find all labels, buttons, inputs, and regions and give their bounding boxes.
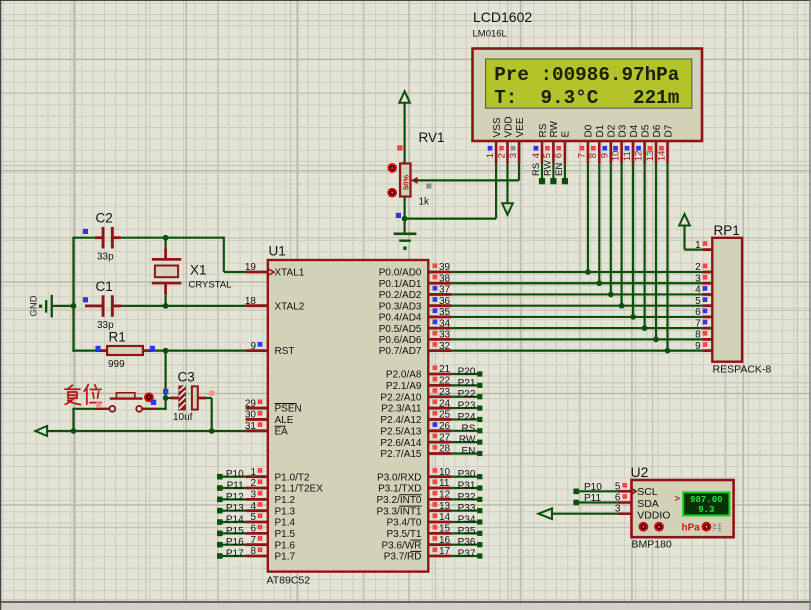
U1 pin 15 P3.5/T1: [386, 524, 451, 540]
wire C3 right lead to vertical: [205, 397, 212, 399]
svg-text:10: 10: [439, 467, 451, 478]
svg-text:P11: P11: [584, 493, 601, 504]
svg-text:13: 13: [439, 501, 451, 512]
node P11 at U2: [573, 493, 618, 505]
junction rail bottom left: [71, 428, 77, 434]
svg-text:P31: P31: [458, 481, 476, 492]
wire RV1 top from power arrow: [404, 103, 406, 164]
svg-text:VDDIO: VDDIO: [637, 510, 670, 522]
U1 pin 27 P2.6/A14: [380, 432, 451, 448]
junction D3/AD3: [619, 303, 625, 309]
power terminal arrow left at EA rail: [35, 426, 47, 436]
U1 pin 26 P2.5/A13: [380, 421, 451, 437]
svg-text:50%: 50%: [401, 175, 410, 190]
svg-text:14: 14: [439, 512, 451, 523]
svg-text:3: 3: [250, 490, 256, 501]
wire button corner down to rail: [72, 408, 74, 432]
node P11: [217, 481, 246, 492]
marker square C3 right: [209, 390, 214, 395]
U1 pin 7 P1.6: [246, 535, 296, 551]
svg-text:33: 33: [439, 330, 451, 341]
svg-text:D1: D1: [595, 124, 606, 137]
svg-text:8: 8: [588, 153, 599, 158]
svg-text:P0.2/AD2: P0.2/AD2: [379, 290, 422, 301]
svg-text:29: 29: [245, 398, 257, 409]
svg-text:ALE: ALE: [275, 415, 294, 426]
junction GND/C1 rail: [71, 303, 77, 309]
svg-text:12: 12: [439, 490, 451, 501]
junction D4/AD4: [630, 314, 636, 320]
U1 pin 38 P0.1/AD1: [379, 273, 452, 289]
marker square button right: [151, 400, 156, 405]
svg-text:P11: P11: [227, 481, 244, 492]
lcd display LCD1602 LM016L: [473, 49, 703, 142]
svg-text:P2.7/A15: P2.7/A15: [380, 449, 422, 460]
node RW: [451, 435, 482, 446]
svg-text:2: 2: [496, 153, 507, 158]
svg-text:8: 8: [250, 546, 256, 557]
wire P0.4/AD4 bus row to RP1 pin 6: [451, 316, 702, 318]
svg-text:13: 13: [645, 151, 656, 162]
U1 pin 3 P1.2: [246, 490, 296, 506]
svg-text:P1.2: P1.2: [275, 495, 296, 506]
U1 pin 30 ALE: [245, 410, 294, 426]
svg-text:P14: P14: [226, 515, 244, 526]
svg-text:6: 6: [554, 153, 565, 158]
svg-text:11: 11: [622, 151, 633, 161]
U2 display window: [683, 492, 729, 515]
marker square R1 right: [150, 346, 155, 351]
svg-text:C1: C1: [96, 279, 113, 294]
power terminal arrow left at U2 VDDIO: [539, 508, 553, 519]
svg-text:P21: P21: [458, 378, 476, 389]
node EN: [451, 446, 482, 457]
svg-text:27: 27: [439, 432, 451, 443]
node P10: [217, 469, 246, 480]
svg-text:VSS: VSS: [492, 117, 503, 137]
svg-text:987.00: 987.00: [690, 495, 722, 505]
svg-text:P2.4/A12: P2.4/A12: [380, 415, 422, 426]
U1 pin 36 P0.3/AD3: [379, 296, 452, 312]
node P10 at U2: [573, 482, 618, 494]
svg-text:X1: X1: [190, 263, 207, 278]
svg-text:4: 4: [531, 153, 542, 158]
LCD pin 5 RW: [542, 120, 560, 163]
svg-text:12: 12: [633, 151, 644, 162]
U1 XTAL1 clock mark: [269, 269, 274, 275]
svg-text:34: 34: [439, 318, 451, 329]
svg-text:35: 35: [439, 307, 451, 318]
svg-text:P13: P13: [226, 503, 244, 514]
RP1 pin 8: [695, 330, 712, 341]
wire LCD D0 down to AD0 bus: [587, 163, 589, 272]
svg-text:5: 5: [542, 153, 553, 158]
U1 pin 22 P2.1/A9: [386, 376, 451, 392]
LCD pin 10 D3: [610, 124, 628, 163]
node P24: [451, 412, 482, 423]
marker square button left: [96, 402, 101, 407]
svg-text:3: 3: [508, 153, 519, 158]
svg-text:P2.3/A11: P2.3/A11: [381, 404, 422, 415]
svg-text:SCL: SCL: [637, 486, 658, 498]
junction D5/AD5: [642, 325, 648, 331]
svg-text:C3: C3: [178, 370, 195, 385]
wire P0.0/AD0 bus row to RP1 pin 2: [451, 271, 702, 273]
svg-text:9: 9: [600, 153, 611, 158]
svg-text:9.3: 9.3: [698, 505, 714, 515]
ground symbol below RV1: [394, 233, 417, 250]
svg-text:P1.6: P1.6: [275, 540, 296, 551]
node P15: [217, 526, 246, 537]
button actuator red knob: [144, 392, 154, 402]
svg-text:23: 23: [439, 387, 451, 398]
svg-text:E: E: [561, 131, 572, 138]
wire P0.2/AD2 bus row to RP1 pin 4: [451, 293, 702, 295]
RP1 pin 5: [695, 296, 712, 307]
wire P0.7/AD7 bus row to RP1 pin 9: [451, 350, 702, 352]
svg-text:31: 31: [245, 421, 257, 432]
svg-text:5: 5: [250, 512, 256, 523]
pushbutton reset: [96, 393, 156, 412]
svg-text:C2: C2: [96, 211, 113, 226]
svg-text:P2.5/A13: P2.5/A13: [380, 426, 422, 437]
U1 pin 12 P3.2/INT0: [376, 490, 451, 506]
RP1 pin 4: [695, 285, 712, 296]
svg-text:GND: GND: [29, 295, 40, 316]
svg-text:P0.0/AD0: P0.0/AD0: [379, 268, 422, 279]
wire LCD D4 down to AD4 bus: [632, 163, 634, 317]
wire LCD D5 down to AD5 bus: [643, 163, 645, 328]
svg-text:P3.2/INT0: P3.2/INT0: [376, 495, 421, 506]
svg-text:D5: D5: [640, 124, 651, 137]
svg-text:P1.0/T2: P1.0/T2: [275, 472, 310, 483]
U1 pin 13 P3.3/INT1: [376, 501, 451, 517]
node P34: [451, 515, 482, 526]
svg-text:RS: RS: [531, 163, 542, 176]
svg-text:1: 1: [695, 240, 701, 251]
svg-text:32: 32: [439, 341, 451, 352]
svg-text:9: 9: [695, 341, 701, 352]
RP1 pin 2: [695, 262, 712, 273]
wire U2 VDDIO to arrow: [552, 513, 618, 515]
wire LCD D1 down to AD1 bus: [598, 163, 600, 283]
svg-text:U1: U1: [269, 244, 286, 259]
svg-text:37: 37: [439, 285, 451, 296]
wire P0.6/AD6 bus row to RP1 pin 8: [451, 338, 702, 340]
wire LCD D6 down to AD6 bus: [655, 163, 657, 339]
LCD pin 4 RS: [531, 123, 549, 163]
svg-text:P1.1/T2EX: P1.1/T2EX: [275, 484, 324, 495]
svg-text:P0.1/AD1: P0.1/AD1: [379, 279, 422, 290]
node P23: [451, 401, 482, 412]
svg-text:1k: 1k: [419, 197, 431, 208]
svg-text:4: 4: [250, 501, 256, 512]
capacitor C2: [95, 227, 121, 249]
svg-text:EN: EN: [461, 446, 475, 457]
svg-text:RW: RW: [543, 160, 554, 176]
svg-text:VEE: VEE: [515, 117, 526, 137]
svg-text:D0: D0: [584, 124, 595, 137]
svg-text:39: 39: [439, 262, 451, 273]
LCD pin 9 D2: [600, 124, 618, 163]
marker square RV1 bottom: [396, 213, 401, 218]
svg-text:P33: P33: [458, 503, 476, 514]
marker square RV1 top: [397, 145, 402, 150]
U1 pin 16 P3.6/WR: [381, 535, 451, 551]
wire corner down to XTAL1 row: [223, 237, 225, 272]
junction D1/AD1: [596, 280, 602, 286]
wire LCD VEE to RV1 wiper: [417, 179, 519, 181]
svg-text:RST: RST: [275, 346, 295, 357]
U1 pin 10 P3.0/RXD: [377, 467, 451, 483]
svg-text:6: 6: [695, 307, 701, 318]
svg-text:P32: P32: [458, 492, 476, 503]
U1 pin 6 P1.5: [246, 524, 296, 540]
U1 pin 9 RST: [246, 341, 295, 357]
svg-text:P3.1/TXD: P3.1/TXD: [378, 484, 421, 495]
sensor U2 BMP180 body: [632, 480, 734, 537]
svg-text:RS: RS: [461, 423, 475, 434]
marker square C1: [83, 297, 88, 302]
svg-text:P1.3: P1.3: [275, 506, 296, 517]
node P16: [217, 537, 246, 548]
resistor R1: [96, 346, 153, 355]
svg-text:D6: D6: [652, 124, 663, 137]
node P33: [451, 503, 482, 514]
wire C2 top net to XTAL1: [74, 237, 96, 239]
node P32: [451, 492, 482, 503]
RP1 pin 9: [695, 341, 712, 352]
node P30: [451, 469, 482, 480]
node P14: [217, 515, 246, 526]
svg-text:P17: P17: [226, 549, 244, 560]
svg-text:PSEN: PSEN: [275, 404, 302, 415]
wire P0.5/AD5 bus row to RP1 pin 7: [451, 327, 702, 329]
LCD pin 11 D4: [622, 124, 640, 163]
potentiometer RV1: [400, 164, 418, 197]
U2 button up: [654, 522, 664, 532]
svg-text:3: 3: [695, 273, 701, 284]
wire P0.3/AD3 bus row to RP1 pin 5: [451, 305, 702, 307]
svg-text:9: 9: [250, 341, 256, 352]
U1 pin 1 P1.0/T2: [246, 467, 310, 483]
svg-text:P2.2/A10: P2.2/A10: [380, 392, 422, 403]
RP1 pin 3: [695, 273, 712, 284]
wire R1 right to RST: [143, 350, 246, 352]
power terminal arrow at RP1 pin1: [679, 214, 690, 226]
wire LCD D7 down to AD7 bus: [666, 163, 668, 351]
svg-text:19: 19: [245, 262, 257, 273]
wire into XTAL1 pin: [224, 271, 246, 273]
svg-text:10: 10: [610, 151, 621, 162]
junction C3 left: [163, 395, 169, 401]
resistor pack RP1 RESPACK-8 body: [712, 238, 742, 362]
svg-text:P0.5/AD5: P0.5/AD5: [379, 324, 422, 335]
svg-text:RESPACK-8: RESPACK-8: [713, 364, 772, 376]
RP1 pin 7: [695, 318, 712, 329]
wire LCD VEE pin3 down: [518, 163, 520, 180]
power terminal arrow above RV1: [399, 91, 410, 103]
svg-text:RW: RW: [459, 435, 476, 446]
junction RV1 bottom: [402, 216, 408, 222]
wire LCD VSS to RV1 bottom node: [405, 218, 497, 220]
svg-text:14: 14: [656, 151, 667, 162]
U1 pin 19 XTAL1: [245, 262, 305, 278]
svg-text:Pre :00986.97hPa: Pre :00986.97hPa: [494, 64, 680, 86]
svg-text:22: 22: [439, 376, 451, 387]
svg-text:P34: P34: [458, 515, 476, 526]
mcu U1 AT89C52 body: [268, 260, 429, 572]
wire C2 right to corner: [112, 237, 224, 239]
svg-text:P16: P16: [226, 537, 244, 548]
marker square R1 left: [95, 346, 100, 351]
svg-text:P0.7/AD7: P0.7/AD7: [379, 346, 422, 357]
svg-text:RP1: RP1: [714, 223, 740, 238]
svg-text:AT89C52: AT89C52: [267, 575, 311, 587]
svg-text:U2: U2: [631, 464, 649, 480]
wire C3 left lead: [166, 397, 171, 399]
U1 pin 28 P2.7/A15: [380, 444, 451, 460]
svg-text:hPa: hPa: [682, 523, 701, 534]
svg-text:P24: P24: [458, 412, 476, 423]
wire crystal X1 top lead: [165, 238, 167, 260]
wire RV1 bottom lead: [404, 197, 406, 233]
RP1 pin 1: [695, 240, 712, 251]
svg-text:7: 7: [695, 318, 701, 329]
U2 gray glyph: [714, 523, 722, 532]
node P31: [451, 481, 482, 492]
junction C3/EA rail: [209, 428, 215, 434]
wire R1 left lead: [72, 350, 96, 352]
node P17: [217, 549, 246, 560]
svg-text:36: 36: [439, 296, 451, 307]
node P36: [451, 537, 482, 548]
node P22: [451, 389, 482, 400]
U1 pin 14 P3.4/T0: [386, 512, 451, 528]
wire left vertical C2 to R1: [72, 237, 74, 352]
svg-text:D4: D4: [629, 124, 640, 137]
svg-text:33p: 33p: [97, 252, 114, 263]
svg-text:2: 2: [250, 478, 256, 489]
svg-text:P2.1/A9: P2.1/A9: [386, 381, 422, 392]
junction D2/AD2: [608, 292, 614, 298]
svg-text:15: 15: [439, 524, 451, 535]
svg-text:LM016L: LM016L: [473, 29, 507, 40]
svg-text:P3.4/T0: P3.4/T0: [386, 518, 421, 529]
U1 pin 29 PSEN: [245, 398, 302, 414]
wire RP1 pin1 from power arrow: [683, 225, 685, 249]
junction D0/AD0: [585, 269, 591, 275]
wire button left corner: [72, 408, 96, 410]
marker square RV1 wiper: [426, 183, 431, 188]
label reset (Chinese fuwei): [65, 385, 102, 405]
wire GND to C1: [53, 305, 75, 307]
LCD pin 3 VEE: [508, 117, 526, 163]
junction D6/AD6: [653, 337, 659, 343]
svg-text:VDD: VDD: [503, 116, 514, 137]
U1 pin 37 P0.2/AD2: [379, 285, 452, 301]
U1 pin 21 P2.0/A8: [386, 364, 451, 380]
U2 mode button: [702, 522, 712, 532]
svg-text:P10: P10: [226, 469, 244, 480]
svg-text:EA: EA: [275, 426, 289, 437]
svg-text:P30: P30: [458, 469, 476, 480]
svg-text:7: 7: [250, 535, 256, 546]
U2 pin 6 SDA: [615, 493, 632, 504]
svg-text:P22: P22: [458, 389, 476, 400]
svg-text:D2: D2: [607, 124, 618, 137]
wire P0.1/AD1 bus row to RP1 pin 3: [451, 282, 702, 284]
svg-text:4: 4: [695, 285, 701, 296]
LCD pin 14 D7: [656, 124, 674, 163]
crystal X1: [152, 249, 182, 295]
node EN at LCD: [554, 163, 568, 185]
svg-text:16: 16: [439, 535, 451, 546]
U2 button down: [639, 522, 649, 532]
svg-text:P0.3/AD3: P0.3/AD3: [379, 301, 422, 312]
wire R1 node down to C3/button: [165, 351, 167, 410]
svg-text:T: 9.3°C 221m: T: 9.3°C 221m: [494, 87, 679, 109]
svg-text:8: 8: [695, 330, 701, 341]
svg-text:P3.5/T1: P3.5/T1: [386, 529, 421, 540]
power-down terminal arrow at LCD VDD: [502, 203, 513, 215]
junction C2/X1 top: [163, 235, 169, 241]
node P20: [451, 367, 482, 378]
svg-text:17: 17: [439, 546, 451, 557]
wire LCD VDD pin2 to power-down arrow: [506, 163, 508, 203]
svg-text:28: 28: [439, 444, 451, 455]
svg-text:D7: D7: [663, 124, 674, 137]
svg-text:26: 26: [439, 421, 451, 432]
svg-text:P1.5: P1.5: [275, 529, 296, 540]
svg-text:D3: D3: [617, 124, 628, 137]
junction R1 right: [163, 348, 169, 354]
capacitor C3 electrolytic: [171, 386, 206, 411]
svg-text:P1.7: P1.7: [275, 552, 296, 563]
svg-text:11: 11: [439, 478, 450, 489]
svg-text:30: 30: [245, 410, 257, 421]
U1 pin 18 XTAL2: [245, 296, 305, 312]
svg-text:P1.4: P1.4: [275, 518, 296, 529]
LCD pin 12 D5: [633, 124, 651, 163]
U1 pin 17 P3.7/RD: [384, 546, 452, 562]
U1 pin 33 P0.6/AD6: [379, 330, 452, 346]
LCD pin 8 D1: [588, 124, 606, 163]
svg-text:XTAL2: XTAL2: [275, 301, 305, 312]
svg-text:P3.3/INT1: P3.3/INT1: [376, 506, 421, 517]
svg-text:>: >: [675, 493, 681, 504]
svg-text:CRYSTAL: CRYSTAL: [189, 280, 232, 291]
LCD pin 1 VSS: [485, 117, 503, 163]
svg-text:P3.0/RXD: P3.0/RXD: [377, 472, 421, 483]
wire bottom EA rail: [46, 430, 246, 432]
node RW at LCD: [543, 160, 557, 184]
svg-text:P15: P15: [226, 526, 244, 537]
node P37: [451, 549, 482, 560]
svg-text:999: 999: [108, 359, 125, 370]
marker square C3 left: [163, 389, 168, 394]
U1 pin 32 P0.7/AD7: [379, 341, 452, 357]
wire crystal X1 bottom lead: [165, 283, 167, 306]
svg-text:P20: P20: [458, 367, 476, 378]
U1 pin 34 P0.5/AD5: [379, 318, 452, 334]
U1 pin 31 EA: [245, 421, 288, 437]
LCD pin 13 D6: [645, 124, 663, 163]
node P21: [451, 378, 482, 389]
node RS: [451, 423, 482, 434]
svg-text:P0.6/AD6: P0.6/AD6: [379, 335, 422, 346]
svg-text:P3.6/WR: P3.6/WR: [381, 540, 421, 551]
